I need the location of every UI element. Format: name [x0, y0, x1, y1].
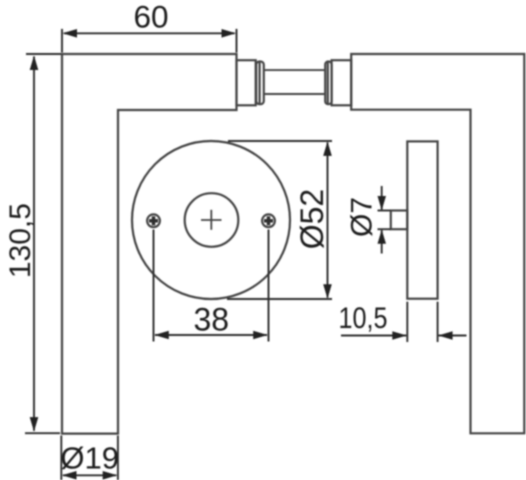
spindle shaft bottom line — [264, 93, 325, 95]
handle front view L-shaped lever — [62, 54, 237, 434]
svg-text:130,5: 130,5 — [4, 203, 37, 278]
collar right ring — [325, 62, 331, 105]
38 left arrow — [154, 331, 169, 340]
dim 60 extension lines — [61, 29, 63, 53]
dim 38 extension lines — [153, 230, 155, 342]
spindle square side view — [391, 211, 408, 230]
inner spindle hole circle — [185, 193, 239, 247]
O19 right arrow — [103, 471, 118, 480]
svg-text:60: 60 — [133, 0, 168, 34]
dim O7 tick lines — [378, 210, 391, 212]
dimension lines — [25, 29, 467, 480]
dim 10,5 arrow stems — [341, 335, 406, 337]
center cross — [201, 219, 222, 221]
130,5 top arrow — [30, 56, 39, 71]
screw crosses — [149, 216, 273, 225]
rose front view circle — [132, 141, 290, 299]
dim O52 tangent lines — [228, 140, 332, 142]
60 left arrow — [63, 29, 78, 38]
38 right arrow — [253, 331, 268, 340]
handle side view L-shaped lever — [351, 54, 524, 433]
collar left ring — [256, 62, 264, 105]
neck left (handle hub front view) — [237, 60, 256, 105]
O7 bottom arrow (points up) — [378, 230, 387, 244]
O52 bottom arrow — [323, 284, 332, 299]
svg-text:38: 38 — [194, 302, 230, 338]
O19 left arrow — [62, 471, 77, 480]
collar left inner line — [259, 62, 261, 103]
svg-text:10,5: 10,5 — [338, 301, 387, 335]
collar right inner line — [327, 62, 329, 103]
60 right arrow — [222, 29, 237, 38]
arrowheads — [30, 29, 453, 480]
dim O7 arrow stems — [381, 186, 383, 210]
dim O19 extension lines — [60, 436, 62, 480]
dim O19 line — [63, 474, 116, 476]
dim 130,5 extension lines — [26, 53, 61, 55]
O52 top arrow — [323, 141, 332, 156]
dim 130,5 line — [33, 57, 35, 431]
dim 10,5 extension lines — [406, 302, 408, 342]
dim 38 line — [155, 334, 267, 336]
10,5 left arrow (points right) — [392, 331, 407, 340]
svg-text:Ø52: Ø52 — [294, 189, 330, 249]
screw right — [262, 214, 275, 227]
O7 top arrow (points down) — [378, 196, 387, 210]
screw left — [147, 214, 160, 227]
dim 60 line — [64, 32, 235, 34]
dim O52 line — [327, 143, 329, 298]
svg-text:Ø19: Ø19 — [60, 441, 119, 476]
spindle shaft top line — [264, 69, 325, 71]
neck right (handle hub side view) — [332, 60, 352, 105]
130,5 bottom arrow — [30, 417, 39, 432]
10,5 right arrow (points left) — [438, 331, 453, 340]
svg-text:Ø7: Ø7 — [346, 197, 379, 237]
rose side view rectangle — [407, 141, 437, 298]
